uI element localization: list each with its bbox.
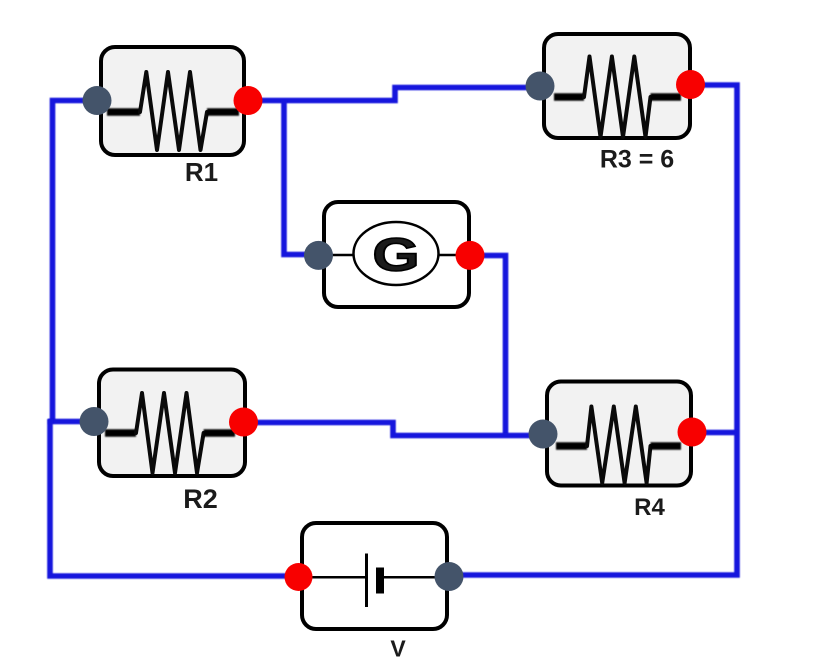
svg-text:R1: R1 <box>185 157 218 187</box>
node: R3 right terminal (red) <box>676 70 705 99</box>
node: G left terminal (gray) <box>304 241 333 270</box>
resistor R3 <box>544 34 690 138</box>
wire: node A rail, R1 left terminal to left vertical rail <box>53 101 98 424</box>
svg-text:V: V <box>390 636 406 662</box>
wire: branch node B down to galvanometer left terminal <box>284 101 320 255</box>
svg-text:R2: R2 <box>183 484 218 514</box>
wire: node D, right rail from R3 right terminal down to battery gray terminal <box>449 85 737 575</box>
resistor R1 <box>101 47 244 155</box>
node: R4 right terminal (red) <box>678 418 707 447</box>
galvanometer G <box>324 202 469 307</box>
node: battery left terminal (red) <box>285 563 313 591</box>
wire: junction arm into R2 left terminal <box>48 419 88 425</box>
node: G right terminal (red) <box>456 241 485 270</box>
wire: node B, R1 right terminal to R3 left terminal (with jog) <box>248 88 540 101</box>
wire: R4 right terminal stub to right rail <box>692 430 737 436</box>
battery V <box>302 523 447 629</box>
node: R4 left terminal (gray) <box>529 420 558 449</box>
wire: lower-left rail down to battery red terminal <box>50 419 298 576</box>
resistor R4 <box>547 382 691 486</box>
node: battery right terminal (gray) <box>435 562 464 591</box>
svg-text:R4: R4 <box>634 494 665 521</box>
wire: node C, R2 right terminal to R4 left terminal (with jog) <box>243 423 541 436</box>
wire: galvanometer right terminal down to node C <box>470 256 506 436</box>
resistor R2 <box>99 370 245 477</box>
node: R3 left terminal (gray) <box>526 72 555 101</box>
node: R2 left terminal (gray) <box>80 407 109 436</box>
node: R1 left terminal (gray) <box>83 86 112 115</box>
node: R1 right terminal (red) <box>234 86 263 115</box>
node: R2 right terminal (red) <box>229 408 258 437</box>
svg-text:R3 = 6: R3 = 6 <box>600 146 674 174</box>
svg-text:G: G <box>372 229 419 281</box>
